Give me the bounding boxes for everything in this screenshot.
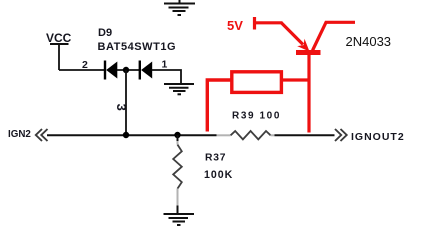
diode D9A bbox=[105, 61, 117, 80]
output port IGNOUT2 bbox=[335, 129, 405, 143]
svg-text:IGN2: IGN2 bbox=[8, 129, 31, 140]
ground GND3 bottom bbox=[164, 214, 195, 225]
ground GND1 top bbox=[164, 0, 195, 15]
resistor R37 bbox=[173, 135, 182, 214]
svg-text:1: 1 bbox=[162, 59, 168, 71]
wire base down to net (red) bbox=[307, 54, 310, 133]
wire diode tap down to main net bbox=[125, 70, 127, 135]
wire VCC to D9 pin 2 bbox=[59, 69, 105, 71]
svg-text:VCC: VCC bbox=[46, 31, 72, 45]
diode D9B bbox=[140, 61, 152, 80]
svg-text:D9: D9 bbox=[98, 27, 112, 39]
transistor Q1 collector (red) bbox=[313, 22, 356, 50]
junction diode common tap bbox=[123, 67, 129, 73]
svg-text:100K: 100K bbox=[204, 169, 233, 181]
wire between diodes bbox=[117, 69, 140, 71]
svg-text:R39 100: R39 100 bbox=[232, 111, 281, 122]
wire main net left bbox=[47, 134, 217, 136]
wire 5V to transistor emitter (red) bbox=[253, 21, 283, 24]
wire D9 pin1 to ground bbox=[152, 70, 181, 84]
red wire right of rectangle bbox=[283, 78, 311, 81]
svg-text:2: 2 bbox=[82, 59, 88, 71]
svg-text:R37: R37 bbox=[205, 153, 226, 164]
svg-text:2N4033: 2N4033 bbox=[346, 34, 392, 49]
junction J2 bbox=[174, 132, 180, 138]
svg-text:5V: 5V bbox=[227, 18, 243, 33]
red resistor rectangle bbox=[232, 72, 282, 93]
input port IGN2 bbox=[8, 129, 48, 141]
power symbol VCC bbox=[46, 31, 72, 70]
svg-text:BAT54SWT1G: BAT54SWT1G bbox=[98, 41, 177, 53]
5V supply tick (red) bbox=[253, 17, 256, 30]
resistor R39 bbox=[217, 131, 275, 139]
red wire left of rectangle bbox=[207, 80, 230, 132]
svg-text:IGNOUT2: IGNOUT2 bbox=[351, 131, 405, 143]
ground GND2 right of D9 bbox=[164, 84, 194, 94]
transistor Q1 base bar (red) bbox=[296, 50, 321, 55]
transistor Q1 2N4033 emitter with arrow (red) bbox=[281, 23, 309, 52]
junction J1 bbox=[123, 132, 129, 138]
wire main net right bbox=[275, 134, 335, 136]
